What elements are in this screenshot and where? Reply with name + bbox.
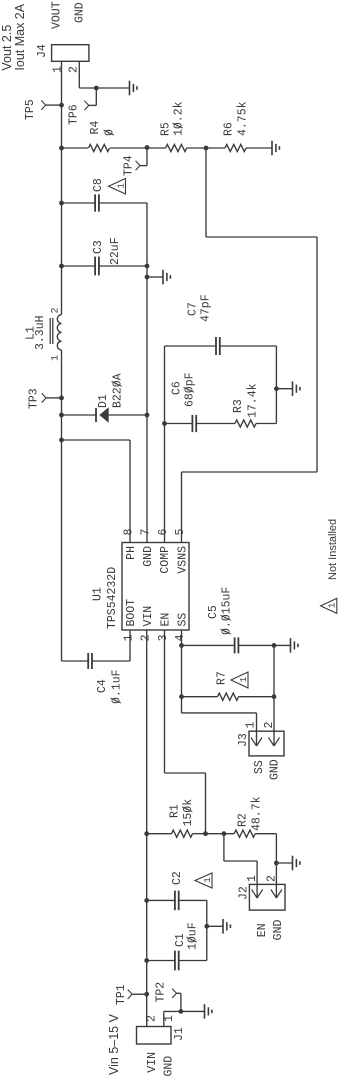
svg-text:GND: GND (74, 2, 87, 23)
label GND J2 (272, 919, 285, 940)
svg-text:J1: J1 (173, 1027, 186, 1041)
pin 3 EN (157, 634, 170, 641)
node rail/D1 (59, 413, 64, 418)
svg-text:Iout Max 2A: Iout Max 2A (13, 3, 27, 70)
svg-text:1: 1 (239, 677, 249, 682)
node rail/TP3 (59, 396, 64, 401)
svg-text:2: 2 (266, 875, 279, 882)
svg-text:10.2k: 10.2k (173, 101, 186, 136)
svg-text:PH: PH (125, 546, 138, 560)
node rail/PH (59, 438, 64, 443)
ground C1C2 (207, 919, 231, 934)
pin 1 J3 (245, 722, 258, 729)
svg-text:J3: J3 (237, 733, 250, 747)
svg-text:GND: GND (272, 919, 285, 940)
ground J4 (130, 81, 137, 96)
node rail/R4 (59, 146, 64, 151)
svg-text:1: 1 (52, 66, 65, 73)
svg-text:48.7k: 48.7k (251, 796, 264, 831)
node C3/bus (145, 264, 150, 269)
resistor R5 (147, 101, 206, 151)
wire J3 pin1 jog (182, 713, 257, 731)
node VSNS tap (204, 146, 209, 151)
svg-text:1: 1 (328, 603, 338, 608)
label EN J2 (256, 923, 269, 937)
marker NI C8 (109, 179, 127, 195)
svg-text:47pF: 47pF (200, 294, 213, 322)
svg-text:7: 7 (140, 529, 153, 536)
svg-text:C5: C5 (207, 605, 220, 619)
resistor R4 (62, 121, 148, 152)
pin 1 BOOT (123, 634, 136, 641)
node SS/R7 (179, 694, 184, 699)
svg-text:VIN: VIN (146, 1052, 159, 1073)
capacitor C4 (62, 630, 131, 704)
wire C1C2 gnd row (206, 900, 208, 960)
label VOUT (51, 1, 64, 29)
svg-text:SS: SS (253, 760, 266, 774)
label Vin 5-15 V (107, 1013, 121, 1075)
label GND J4 (74, 2, 87, 23)
svg-text:R4: R4 (89, 121, 102, 135)
capacitor C6 (165, 372, 197, 432)
pin 2 J3 (263, 722, 276, 729)
testpoint TP2 (155, 982, 181, 1012)
svg-text:EN: EN (256, 923, 269, 937)
svg-text:U1: U1 (92, 587, 105, 601)
svg-text:2: 2 (140, 634, 153, 641)
label Iout Max 2A (13, 3, 27, 70)
pin 2 J4 (68, 66, 81, 73)
label Vout 2.5 (0, 25, 14, 71)
node TP6 junction (94, 86, 99, 91)
svg-text:22uF: 22uF (109, 237, 122, 265)
wire VOUT/PH rail (61, 61, 63, 661)
node TP4 (145, 145, 150, 150)
svg-text:J4: J4 (36, 44, 49, 58)
capacitor C8 (62, 178, 148, 212)
capacitor C5 (182, 587, 275, 654)
svg-text:COMP: COMP (159, 546, 172, 574)
wire J2 pin1 jog (224, 834, 257, 885)
pin 8 PH (123, 529, 136, 536)
capacitor C3 (62, 237, 148, 275)
svg-text:8: 8 (123, 529, 136, 536)
svg-text:R5: R5 (160, 122, 173, 136)
svg-text:C8: C8 (92, 178, 105, 192)
wire COMP (164, 346, 166, 543)
ground R6 (272, 141, 279, 156)
wire GND bus (146, 203, 148, 543)
connector J3 (237, 731, 284, 756)
svg-text:C4: C4 (96, 679, 109, 693)
connector J4 (36, 44, 89, 61)
svg-text:1: 1 (51, 355, 62, 361)
resistor R2 (206, 796, 277, 837)
wire J4 pin2 to ground (79, 61, 129, 88)
ground bus (147, 270, 170, 285)
svg-text:C7: C7 (187, 302, 200, 316)
svg-text:TP4: TP4 (123, 155, 136, 176)
svg-text:Vout 2.5: Vout 2.5 (0, 25, 14, 71)
pin 7 GND (140, 529, 153, 536)
ground comp (276, 381, 300, 396)
marker NI C2 (195, 873, 213, 888)
svg-text:TP6: TP6 (68, 104, 81, 125)
wire R2 to J2 pin2 (275, 834, 277, 885)
svg-text:R6: R6 (223, 122, 236, 136)
node rail/C8 (59, 201, 64, 206)
pin 6 COMP (157, 529, 170, 536)
testpoint TP6 (68, 88, 97, 125)
svg-text:TP1: TP1 (115, 984, 128, 1005)
svg-text:C3: C3 (92, 240, 105, 254)
label GND J3 (269, 759, 282, 780)
svg-text:10uF: 10uF (187, 922, 200, 950)
svg-text:1: 1 (246, 875, 259, 882)
pin 4 SS (174, 634, 187, 641)
label GND J1 (163, 1056, 176, 1077)
pin 5 VSNS (174, 529, 187, 536)
svg-text:R7: R7 (216, 671, 229, 685)
svg-text:0.015uF: 0.015uF (221, 587, 234, 635)
node C1C2 ground tap (204, 924, 209, 929)
svg-text:TP3: TP3 (28, 388, 41, 409)
svg-text:GND: GND (163, 1056, 176, 1077)
connector J2 (238, 884, 286, 910)
inductor L1 (25, 307, 62, 361)
svg-text:0: 0 (104, 129, 117, 136)
svg-text:3: 3 (157, 634, 170, 641)
label SS J3 (253, 760, 266, 774)
svg-text:1: 1 (203, 877, 213, 882)
ground J1 (205, 1004, 212, 1019)
label Not Installed (327, 519, 338, 580)
svg-text:2: 2 (51, 307, 62, 313)
svg-text:6: 6 (157, 529, 170, 536)
pin 2 VIN (140, 634, 153, 641)
svg-text:1: 1 (123, 634, 136, 641)
svg-text:17.4k: 17.4k (247, 383, 260, 418)
resistor R1 (147, 799, 206, 838)
svg-text:D1: D1 (97, 394, 110, 408)
svg-text:R3: R3 (232, 399, 245, 413)
svg-text:SS: SS (176, 613, 189, 627)
label VIN J1 (146, 1052, 159, 1073)
wire comp bottom (275, 346, 277, 424)
node rail/C3 (59, 264, 64, 269)
wire SS gnd row (273, 645, 275, 730)
ground J2 (276, 856, 300, 871)
node COMP/C6 (162, 421, 167, 426)
svg-text:GND: GND (269, 759, 282, 780)
node J2 ground tap (274, 861, 279, 866)
svg-text:J2: J2 (238, 886, 251, 900)
svg-text:680pF: 680pF (184, 372, 197, 407)
svg-text:GND: GND (142, 546, 155, 567)
svg-text:EN: EN (159, 613, 172, 627)
svg-text:TP2: TP2 (155, 982, 168, 1003)
svg-text:150k: 150k (182, 799, 195, 827)
node rail/C1 (144, 958, 149, 963)
ground C5 (274, 638, 298, 653)
marker NI R7 (231, 672, 249, 688)
svg-text:5: 5 (174, 529, 187, 536)
capacitor C1 (147, 922, 207, 970)
svg-text:2: 2 (146, 1015, 159, 1022)
pin 1 J1 (163, 1015, 176, 1022)
connector J1 (137, 1027, 187, 1045)
pin 2 J2 (266, 875, 279, 882)
wire SS (181, 630, 183, 713)
node rail/C2 (144, 898, 149, 903)
svg-text:4: 4 (174, 634, 187, 641)
node TP2 junction (179, 1009, 184, 1014)
IC U1 TPS54232D (92, 543, 190, 631)
wire EN (165, 630, 206, 834)
svg-text:Vin 5–15 V: Vin 5–15 V (107, 1013, 121, 1075)
node R7/gnd row (272, 694, 277, 699)
pin 1 J2 (246, 875, 259, 882)
pin 2 J1 (146, 1015, 159, 1022)
testpoint TP3 (28, 388, 62, 409)
wire PH branch (62, 440, 131, 543)
svg-text:1: 1 (163, 1015, 176, 1022)
node bus ground tap (145, 275, 150, 280)
svg-text:VIN: VIN (142, 606, 155, 627)
wire VSNS route (182, 148, 318, 543)
testpoint TP5 (24, 99, 64, 120)
svg-text:Not Installed: Not Installed (327, 519, 338, 580)
resistor R6 (206, 101, 272, 151)
node comp ground tap (274, 386, 279, 391)
testpoint TP4 (123, 148, 148, 177)
svg-text:4.75k: 4.75k (237, 101, 250, 136)
diode D1 (62, 373, 148, 422)
resistor R3 (196, 383, 276, 427)
svg-text:VSNS: VSNS (176, 546, 189, 574)
capacitor C7 (165, 294, 277, 355)
svg-text:2: 2 (263, 722, 276, 729)
svg-text:3.3uH: 3.3uH (34, 315, 47, 350)
capacitor C2 (147, 871, 207, 910)
svg-text:1: 1 (116, 183, 126, 188)
svg-text:TPS54232D: TPS54232D (106, 567, 119, 629)
node SS/C5 (179, 643, 184, 648)
svg-text:BOOT: BOOT (125, 599, 138, 627)
node C5 ground tap (272, 643, 277, 648)
pin 1 J4 (52, 66, 65, 73)
svg-text:VOUT: VOUT (51, 1, 64, 29)
svg-text:R2: R2 (237, 813, 250, 827)
svg-text:C6: C6 (171, 381, 184, 395)
svg-text:TP5: TP5 (24, 99, 37, 120)
svg-text:R1: R1 (169, 804, 182, 818)
wire VIN rail (146, 630, 148, 1027)
node D1/bus (145, 413, 150, 418)
testpoint TP1 (115, 984, 149, 1005)
wire J1 gnd (164, 1011, 205, 1026)
marker NI legend (321, 598, 338, 613)
node J2 pin1 tap (222, 831, 227, 836)
svg-text:C2: C2 (171, 871, 184, 885)
node rail/R1 (144, 831, 149, 836)
svg-text:1: 1 (245, 722, 258, 729)
svg-text:2: 2 (68, 66, 81, 73)
resistor R7 (182, 671, 275, 700)
svg-text:B220A: B220A (112, 373, 125, 408)
node EN tap (203, 831, 208, 836)
svg-text:C1: C1 (174, 933, 187, 947)
